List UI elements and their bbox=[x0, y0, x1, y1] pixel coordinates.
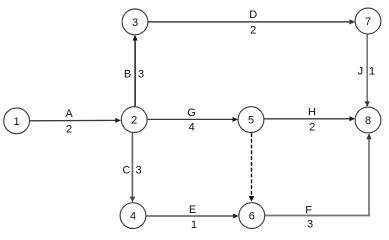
svg-text:4: 4 bbox=[189, 122, 195, 134]
label J 1 on edge J bbox=[358, 65, 375, 77]
label C 3 on edge C bbox=[122, 164, 141, 176]
wire F: edge from node 6 right then up to node 8 bottom bbox=[265, 133, 372, 215]
node 6 bbox=[239, 203, 265, 229]
label G 4 on edge G bbox=[187, 107, 196, 133]
svg-text:3: 3 bbox=[138, 69, 144, 81]
svg-text:2: 2 bbox=[131, 115, 137, 127]
svg-text:C: C bbox=[122, 164, 130, 176]
svg-text:B: B bbox=[124, 69, 131, 81]
wire A: edge from node 1 to node 2 bbox=[30, 118, 121, 123]
label E 1 on edge E bbox=[189, 204, 197, 231]
wire H: edge from node 5 to node 8 bbox=[264, 116, 355, 121]
svg-text:1: 1 bbox=[191, 219, 197, 231]
svg-text:4: 4 bbox=[130, 211, 136, 223]
svg-text:A: A bbox=[65, 108, 73, 120]
svg-text:D: D bbox=[249, 9, 257, 21]
svg-text:2: 2 bbox=[309, 122, 315, 134]
wire B: edge from node 2 up to node 3 bbox=[133, 35, 138, 107]
svg-text:7: 7 bbox=[365, 16, 371, 28]
svg-text:1: 1 bbox=[369, 65, 375, 77]
svg-text:5: 5 bbox=[248, 115, 254, 127]
wire E: edge from node 4 to node 6 bbox=[146, 214, 238, 219]
label H 2 on edge H bbox=[308, 107, 316, 134]
node 8 bbox=[355, 107, 381, 133]
label F 3 on edge F bbox=[305, 205, 313, 231]
node 5 bbox=[238, 107, 264, 133]
svg-text:1: 1 bbox=[14, 116, 20, 128]
wire J: edge from node 7 down to node 8 bbox=[365, 34, 370, 107]
label A 2 on edge A bbox=[65, 108, 73, 135]
node 4 bbox=[120, 203, 146, 229]
svg-text:H: H bbox=[308, 107, 316, 119]
node 3 bbox=[122, 9, 148, 35]
svg-text:3: 3 bbox=[307, 219, 313, 231]
svg-text:2: 2 bbox=[66, 123, 72, 135]
wire dummy: dashed edge from node 5 down to node 6 bbox=[249, 133, 254, 202]
node 2 bbox=[121, 107, 147, 133]
svg-text:3: 3 bbox=[136, 164, 142, 176]
wire G: edge from node 2 to node 5 bbox=[147, 117, 238, 122]
svg-text:G: G bbox=[187, 107, 196, 119]
node 1 bbox=[4, 108, 30, 134]
label B 3 on edge B bbox=[124, 69, 144, 81]
svg-text:J: J bbox=[358, 65, 364, 77]
svg-text:8: 8 bbox=[365, 115, 371, 127]
node 7 bbox=[355, 8, 381, 34]
svg-text:E: E bbox=[189, 204, 196, 216]
svg-text:F: F bbox=[305, 205, 312, 217]
svg-text:6: 6 bbox=[249, 211, 255, 223]
svg-text:2: 2 bbox=[250, 24, 256, 36]
wire D: edge from node 3 to node 7 bbox=[148, 19, 355, 24]
label D 2 on edge D bbox=[249, 9, 257, 36]
wire C: edge from node 2 down to node 4 bbox=[130, 133, 136, 203]
svg-text:3: 3 bbox=[132, 17, 138, 29]
